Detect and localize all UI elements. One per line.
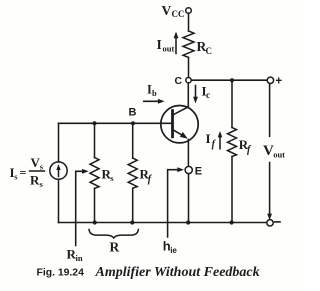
Vcc label xyxy=(162,3,185,19)
wire base row xyxy=(59,122,172,124)
current Ic arrow xyxy=(193,86,198,104)
label Ib xyxy=(147,83,157,99)
svg-text:f: f xyxy=(148,174,153,185)
wire Vcc to Rc xyxy=(188,13,190,31)
wire E to bottom rail xyxy=(188,174,190,223)
junction top of Rf xyxy=(230,78,234,82)
label If xyxy=(206,131,217,150)
svg-text:s: s xyxy=(110,173,114,183)
svg-text:b: b xyxy=(152,88,157,98)
label Iout xyxy=(157,37,175,54)
hie arrow xyxy=(168,167,184,237)
label Rin xyxy=(67,247,83,264)
label Is = Vs/Rs xyxy=(10,155,44,189)
node B junction dot xyxy=(131,121,135,125)
current Iout arrow xyxy=(174,32,179,54)
resistor Rs branch wire top xyxy=(94,123,96,157)
svg-text:s: s xyxy=(14,172,18,182)
svg-text:s: s xyxy=(40,162,44,172)
label minus xyxy=(275,221,280,223)
svg-text:out: out xyxy=(163,44,175,54)
fraction bar xyxy=(30,170,45,172)
wire C to collector xyxy=(187,83,189,107)
svg-text:R: R xyxy=(30,173,40,188)
junction Rf input bottom xyxy=(130,220,134,224)
transistor Q1 xyxy=(161,106,198,143)
label Rf input xyxy=(140,167,153,186)
svg-text:f: f xyxy=(212,139,217,150)
resistor Rf input branch wire top xyxy=(132,123,134,158)
junction top of Rs xyxy=(93,121,97,125)
plus terminal xyxy=(267,77,273,83)
svg-text:R: R xyxy=(110,240,120,255)
bottom rail xyxy=(59,222,267,224)
svg-text:=: = xyxy=(20,166,27,180)
svg-text:out: out xyxy=(273,150,285,160)
svg-text:ie: ie xyxy=(170,246,177,255)
label Vout xyxy=(263,143,285,160)
resistor Rs xyxy=(90,158,99,189)
svg-text:f: f xyxy=(247,145,252,156)
resistor Rf input xyxy=(128,158,137,188)
svg-text:I: I xyxy=(206,131,211,146)
feedback Rf branch wire bottom xyxy=(231,157,233,223)
resistor RC xyxy=(183,31,194,57)
svg-text:C: C xyxy=(206,46,213,56)
current Ib arrow xyxy=(144,99,165,104)
wire C to plus terminal xyxy=(191,79,267,81)
wire emitter down xyxy=(187,140,189,167)
feedback Rf branch wire top xyxy=(231,80,233,127)
svg-text:V: V xyxy=(162,3,172,18)
resistor Rf feedback xyxy=(228,128,237,157)
svg-text:CC: CC xyxy=(172,9,185,19)
wire left branch lower xyxy=(58,179,60,222)
svg-text:I: I xyxy=(157,37,162,52)
svg-text:B: B xyxy=(129,107,137,119)
svg-text:Fig. 19.24: Fig. 19.24 xyxy=(37,268,85,279)
junction Rf feedback bottom xyxy=(230,220,234,224)
node E xyxy=(185,166,192,173)
svg-text:Amplifier Without Feedback: Amplifier Without Feedback xyxy=(95,265,260,280)
Vout arrow lower xyxy=(267,163,272,221)
wire Rc to node C xyxy=(188,57,190,77)
label hie xyxy=(163,239,178,256)
Vout arrow upper xyxy=(269,84,271,136)
label Rs xyxy=(102,167,115,184)
label Ic xyxy=(202,84,211,101)
Rin arrow xyxy=(76,169,89,246)
svg-text:C: C xyxy=(175,75,183,87)
label Rf feedback xyxy=(239,137,252,156)
wire left branch upper xyxy=(58,123,60,162)
svg-text:s: s xyxy=(40,179,44,189)
brace R xyxy=(89,230,138,239)
junction emitter bottom xyxy=(186,220,190,224)
svg-text:+: + xyxy=(275,76,282,88)
resistor Rf input branch wire bottom xyxy=(132,188,134,222)
minus terminal xyxy=(267,220,273,226)
current source Is xyxy=(50,162,67,179)
label RC xyxy=(197,39,213,56)
svg-text:in: in xyxy=(76,253,83,263)
junction Rs bottom xyxy=(93,220,97,224)
svg-text:E: E xyxy=(195,165,202,177)
Vcc terminal xyxy=(186,8,192,14)
resistor Rs branch wire bottom xyxy=(94,188,96,222)
current If arrow xyxy=(218,131,223,149)
svg-text:c: c xyxy=(206,90,210,100)
node C xyxy=(186,78,191,83)
caption xyxy=(37,265,260,280)
